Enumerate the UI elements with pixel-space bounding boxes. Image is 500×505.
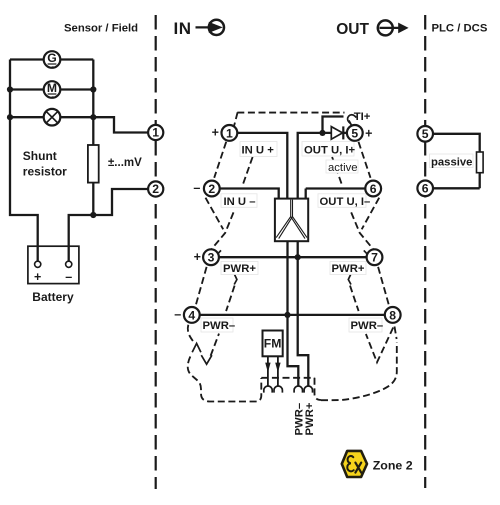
FM output arrows bbox=[265, 356, 280, 385]
svg-text:2: 2 bbox=[208, 182, 215, 196]
terminal 7 bbox=[367, 249, 383, 265]
module outline: notch valley below terminal 4 bbox=[201, 355, 212, 364]
wire: IN U- (terminal 2 to isolator) bbox=[220, 189, 279, 199]
svg-text:FM: FM bbox=[264, 337, 282, 351]
svg-text:–: – bbox=[193, 181, 200, 195]
FM box (fieldbus monitoring) bbox=[263, 331, 283, 357]
svg-text:PWR+: PWR+ bbox=[304, 402, 316, 435]
module outline: dashed edge terminal 7 to 8 bbox=[378, 267, 389, 306]
zone separator line (OUT | PLC/DCS) bbox=[424, 15, 426, 488]
module outline: notch and edge to terminal 3 bbox=[212, 212, 234, 248]
terminal 4 bbox=[184, 307, 200, 323]
wire: lamp branch bbox=[10, 116, 93, 118]
wire: PWR- rail bbox=[200, 314, 385, 316]
svg-text:6: 6 bbox=[370, 182, 377, 196]
terminal 1 bbox=[222, 125, 238, 141]
svg-text:–: – bbox=[65, 270, 72, 284]
svg-text:PWR+: PWR+ bbox=[332, 263, 365, 275]
module outline: dashed edge terminal 1 to 2 bbox=[214, 142, 226, 178]
module outline: dash terminal 8 to right boundary bbox=[395, 327, 397, 340]
module outline: dashed edge terminal 3 to 4 bbox=[196, 267, 207, 306]
module outline: chevron below PWR+ left bbox=[234, 275, 237, 285]
svg-text:IN U –: IN U – bbox=[224, 196, 256, 208]
svg-text:OUT U, I+: OUT U, I+ bbox=[304, 145, 356, 157]
module outline: notch and edge to terminal 7 bbox=[351, 212, 373, 248]
module outline: inner dashed edge to PWR- left bbox=[226, 286, 235, 312]
svg-text:G: G bbox=[47, 51, 56, 65]
junction dot OUT U,I+ bbox=[319, 130, 325, 136]
svg-text:+: + bbox=[212, 126, 219, 140]
svg-text:8: 8 bbox=[389, 308, 396, 322]
svg-text:4: 4 bbox=[188, 308, 195, 322]
svg-text:Zone 2: Zone 2 bbox=[373, 458, 413, 472]
passive load resistor bbox=[477, 152, 484, 173]
isolator U1 (3-port DC/DC converter) bbox=[275, 199, 308, 242]
wire: passive load loop bbox=[433, 134, 480, 189]
svg-text:3: 3 bbox=[208, 251, 215, 265]
module outline: top dashed edge bbox=[237, 112, 344, 114]
svg-text:1: 1 bbox=[226, 126, 233, 140]
zone separator line (Sensor/Field | IN) bbox=[155, 15, 157, 489]
OUT flow symbol bbox=[336, 20, 408, 37]
wire: IN U+ (terminal 1 to isolator) bbox=[237, 133, 287, 199]
wire: lamp to terminal 1 bbox=[93, 117, 148, 132]
module outline: connector box top edge bbox=[261, 377, 314, 379]
svg-text:+: + bbox=[194, 250, 201, 264]
svg-text:resistor: resistor bbox=[23, 165, 67, 179]
module outline: tick at terminal 3 bbox=[218, 250, 222, 254]
module outline: inner dashed edge below IN U+ bbox=[243, 157, 253, 184]
battery bbox=[28, 246, 79, 284]
module outline: notch below terminal 8 bbox=[366, 328, 393, 363]
svg-text:OUT: OUT bbox=[336, 21, 369, 38]
diode D (output) bbox=[331, 126, 346, 139]
wire: TI+ test tap bbox=[323, 117, 344, 133]
terminal 6 bbox=[365, 181, 381, 197]
Ex hexagon symbol bbox=[342, 451, 367, 477]
label background boxes bbox=[240, 142, 277, 157]
svg-text:IN U +: IN U + bbox=[242, 145, 275, 157]
junction dot PWR+ bbox=[295, 254, 301, 260]
svg-text:±...mV: ±...mV bbox=[108, 157, 142, 169]
svg-text:+: + bbox=[365, 127, 372, 141]
wire: OUT U,I- (isolator to terminal 6) bbox=[306, 189, 365, 199]
svg-text:Shunt: Shunt bbox=[23, 149, 57, 163]
svg-text:active: active bbox=[328, 162, 358, 174]
module outline: top-left corner into terminal 1 bbox=[234, 112, 238, 126]
module outline: hook below terminal 4 bbox=[188, 325, 194, 343]
svg-text:PLC / DCS: PLC / DCS bbox=[432, 23, 488, 35]
wire: field left bus bbox=[10, 60, 38, 262]
svg-text:6: 6 bbox=[422, 182, 429, 196]
module outline: dashed edge terminal 2 to notch bbox=[206, 198, 224, 230]
module outline: inner dashed edge up to PWR- label bbox=[211, 334, 219, 356]
module outline: bottom-right boundary curve bbox=[321, 342, 397, 400]
svg-text:PWR+: PWR+ bbox=[223, 263, 256, 275]
svg-text:M: M bbox=[47, 81, 57, 95]
wire: isolator to PWR+ connector bbox=[298, 241, 309, 385]
junction dot PWR- bbox=[284, 312, 290, 318]
module outline: chevron below PWR+ right bbox=[348, 275, 351, 285]
svg-text:OUT U, I–: OUT U, I– bbox=[320, 196, 371, 208]
svg-text:Sensor / Field: Sensor / Field bbox=[64, 23, 138, 35]
wire: motor branch bbox=[10, 88, 93, 90]
svg-text:TI+: TI+ bbox=[354, 111, 371, 123]
module outline: dashed edge terminal 6 to notch bbox=[362, 198, 380, 230]
svg-text:IN: IN bbox=[174, 19, 192, 38]
wire: generator branch bbox=[10, 58, 93, 60]
svg-text:PWR–: PWR– bbox=[351, 320, 384, 332]
wire: isolator to PWR- connector bbox=[288, 241, 299, 385]
terminal 6 (PLC side) bbox=[417, 181, 433, 197]
svg-text:1: 1 bbox=[152, 126, 159, 140]
svg-text:Battery: Battery bbox=[32, 290, 74, 304]
terminal 3 bbox=[203, 249, 219, 265]
motor M symbol bbox=[44, 81, 61, 98]
terminal 5 (PLC side) bbox=[417, 126, 433, 142]
module outline: notch peak below terminal 4 bbox=[192, 343, 201, 352]
terminal 2 bbox=[204, 181, 220, 197]
wire: OUT U,I+ (isolator to diode) bbox=[298, 133, 332, 199]
terminal 1 (field side) bbox=[148, 125, 163, 140]
connector socket arcs bbox=[264, 386, 272, 393]
module outline: tick at terminal 7 bbox=[364, 250, 367, 254]
generator G symbol bbox=[44, 51, 61, 68]
svg-text:7: 7 bbox=[371, 251, 378, 265]
svg-text:passive: passive bbox=[431, 157, 472, 169]
svg-text:+: + bbox=[34, 270, 41, 284]
IN flow symbol bbox=[174, 19, 224, 38]
TI+ socket arc bbox=[346, 113, 357, 124]
indicator lamp symbol bbox=[44, 109, 61, 126]
module outline: bottom-left boundary bbox=[188, 357, 262, 402]
module outline: inner dashed edge to PWR- right bbox=[350, 286, 359, 312]
module outline: dashed edge terminal 5 to 6 bbox=[359, 142, 371, 178]
wire: PWR+ rail bbox=[219, 256, 366, 258]
module outline: inner dashed edge below active bbox=[332, 157, 342, 184]
shunt resistor R bbox=[88, 145, 99, 183]
terminal 8 bbox=[385, 307, 401, 323]
junction dots field bbox=[7, 86, 13, 92]
module outline: connector box right edge bbox=[315, 378, 322, 400]
wire: terminal 2 to battery minus bbox=[69, 189, 149, 261]
svg-text:PWR–: PWR– bbox=[203, 320, 236, 332]
svg-text:5: 5 bbox=[422, 127, 429, 141]
svg-text:–: – bbox=[174, 308, 181, 322]
svg-text:5: 5 bbox=[351, 126, 358, 140]
wire: field right bus (to shunt) bbox=[92, 60, 94, 216]
terminal 5 bbox=[347, 125, 363, 141]
svg-text:2: 2 bbox=[152, 182, 159, 196]
terminal 2 (field side) bbox=[148, 181, 163, 196]
